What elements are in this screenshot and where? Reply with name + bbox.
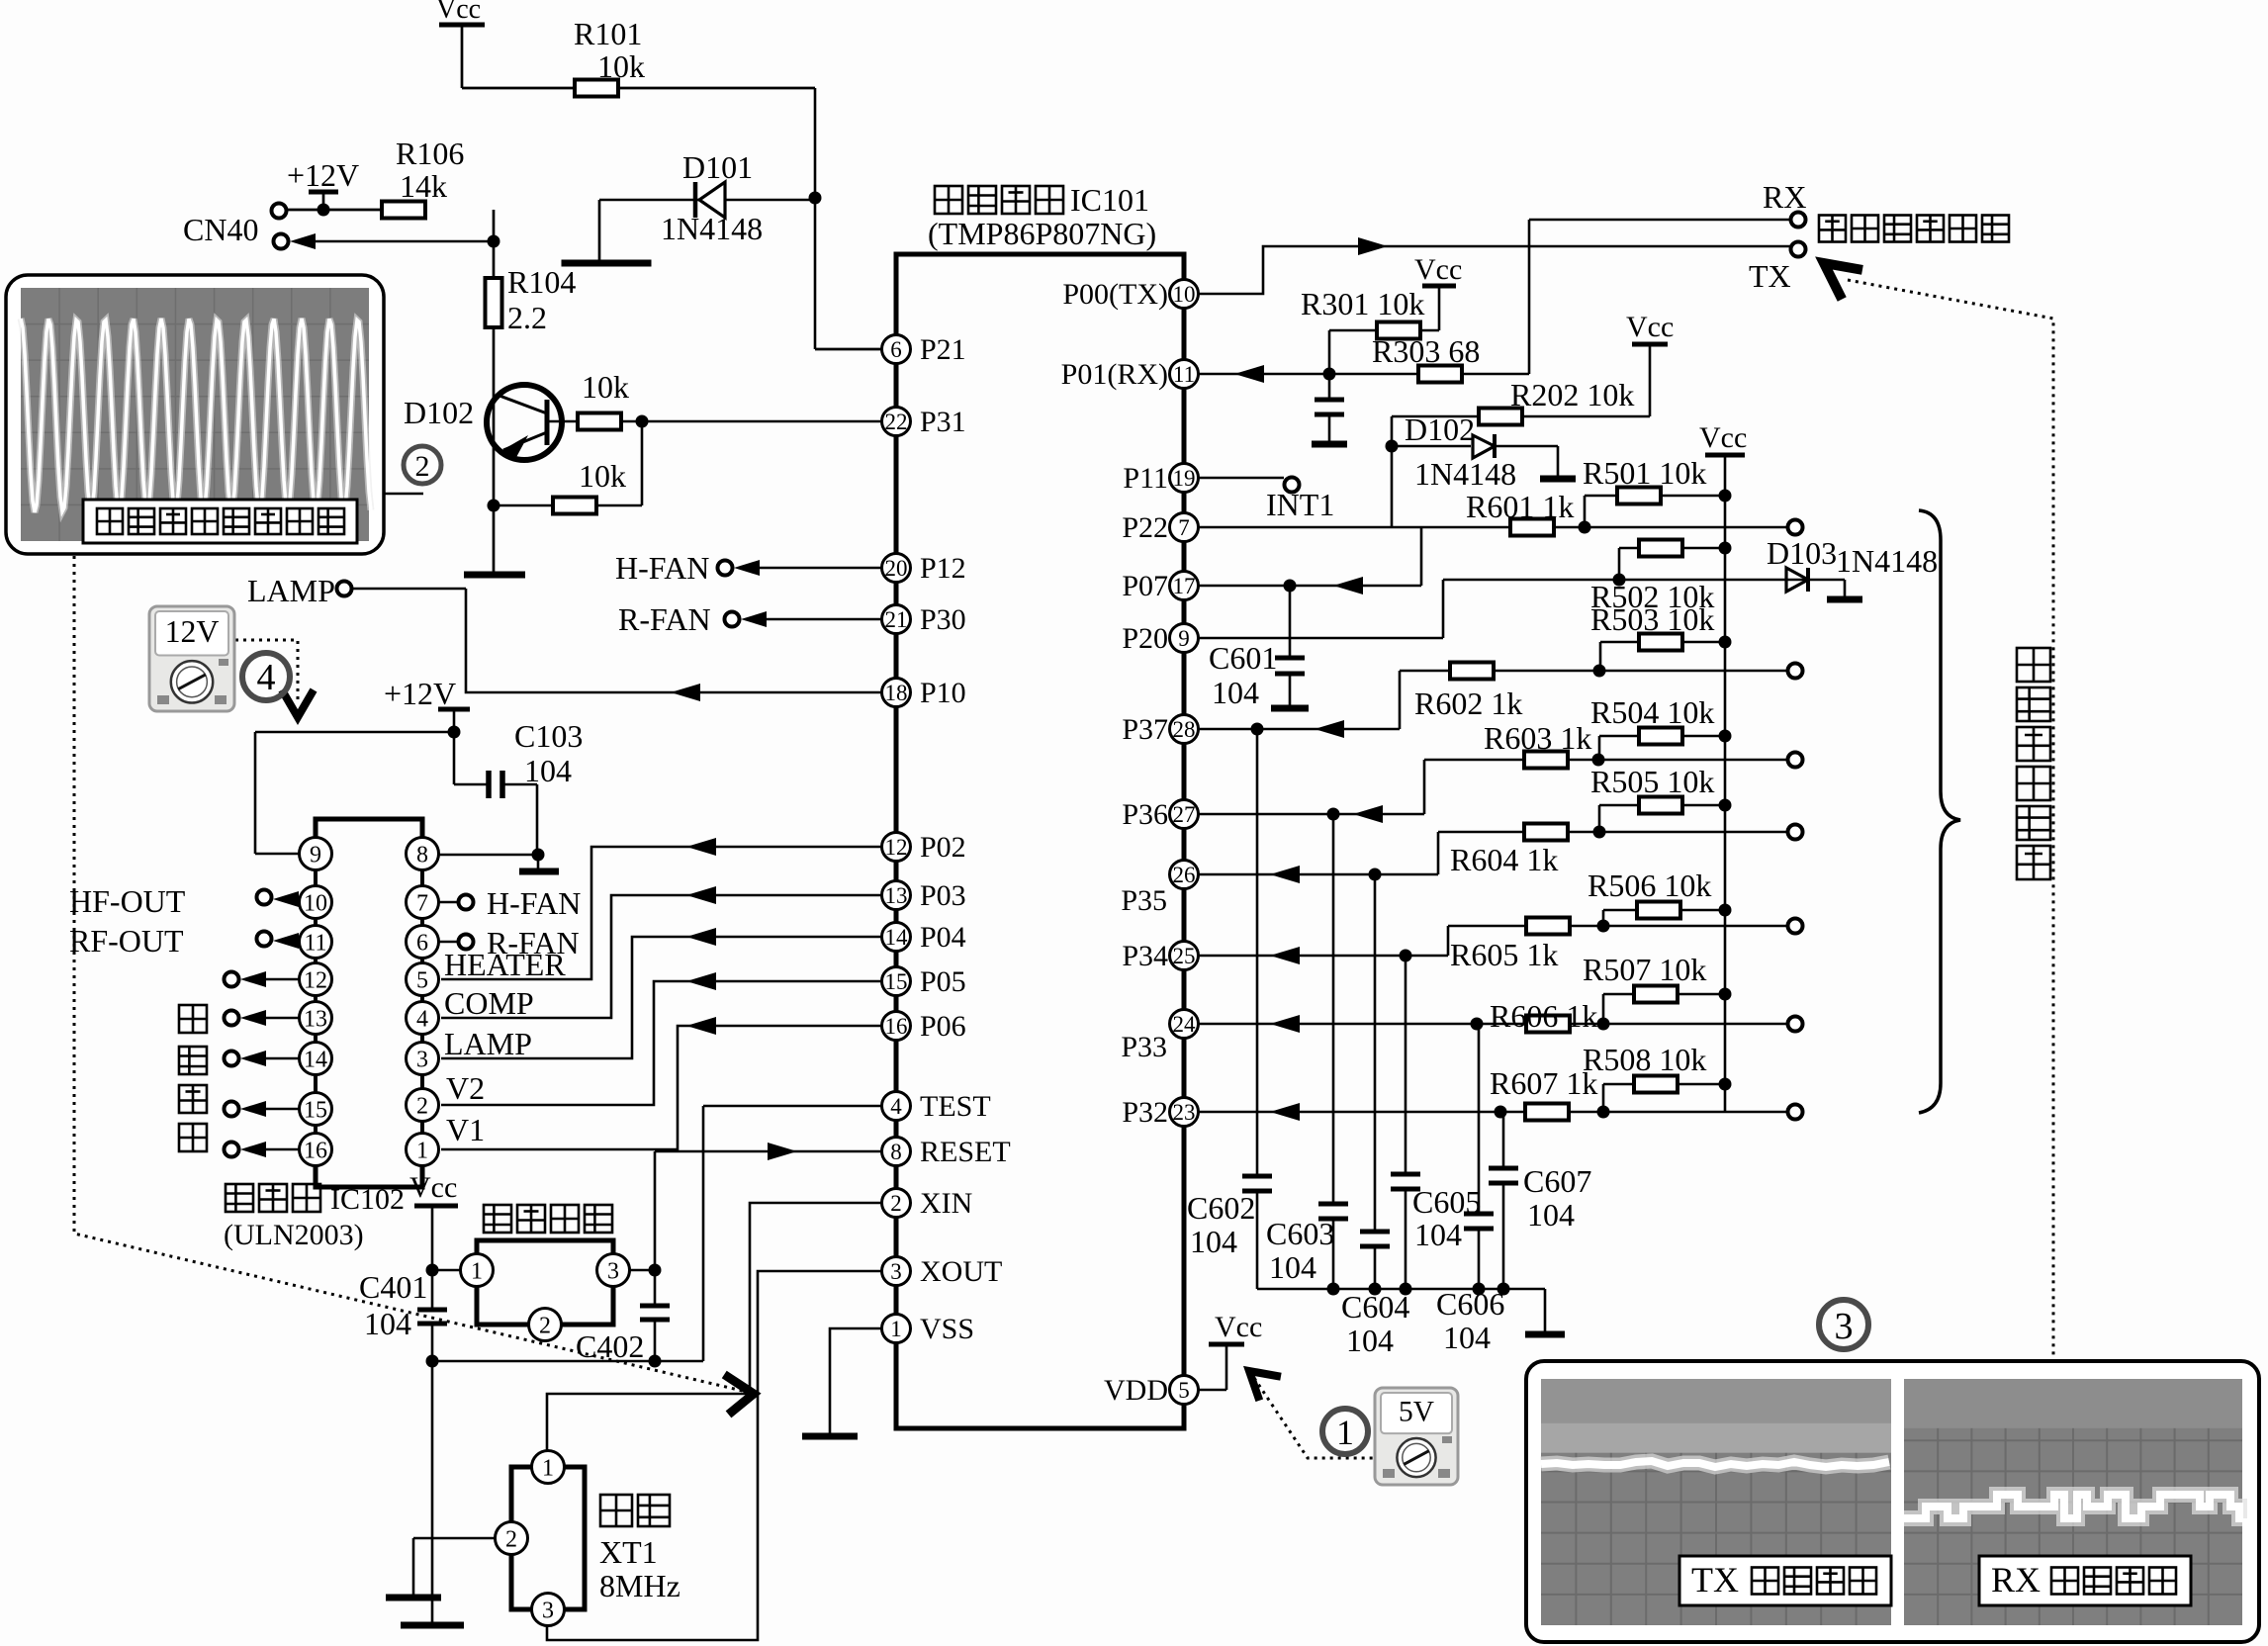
svg-text:1N4148: 1N4148: [1836, 543, 1938, 579]
svg-text:104: 104: [1414, 1217, 1462, 1252]
svg-text:R506 10k: R506 10k: [1588, 868, 1711, 903]
svg-text:P21: P21: [920, 333, 966, 366]
svg-text:13: 13: [304, 1006, 327, 1032]
svg-text:RX: RX: [1763, 179, 1806, 215]
svg-text:13: 13: [885, 883, 908, 908]
svg-text:IC102: IC102: [330, 1183, 405, 1216]
svg-text:19: 19: [1173, 466, 1196, 491]
svg-text:P31: P31: [920, 406, 966, 438]
svg-text:Vcc: Vcc: [1699, 421, 1747, 454]
svg-text:4: 4: [890, 1094, 902, 1119]
svg-text:P33: P33: [1121, 1031, 1167, 1063]
svg-text:LAMP: LAMP: [247, 573, 335, 608]
svg-text:11: 11: [1173, 362, 1195, 387]
svg-text:16: 16: [304, 1138, 327, 1163]
svg-text:Vcc: Vcc: [1626, 311, 1674, 343]
svg-text:LAMP: LAMP: [444, 1026, 532, 1061]
svg-text:20: 20: [885, 556, 908, 581]
svg-text:104: 104: [1346, 1323, 1394, 1358]
svg-text:8: 8: [890, 1140, 902, 1164]
svg-text:R501 10k: R501 10k: [1583, 455, 1706, 491]
svg-text:14k: 14k: [400, 168, 447, 204]
svg-text:2: 2: [539, 1313, 551, 1338]
svg-text:7: 7: [416, 890, 428, 916]
svg-text:23: 23: [1173, 1100, 1196, 1125]
svg-text:P04: P04: [920, 921, 966, 954]
svg-text:6: 6: [890, 337, 902, 362]
svg-text:104: 104: [1443, 1320, 1491, 1355]
svg-text:104: 104: [1212, 675, 1259, 710]
svg-text:14: 14: [304, 1047, 327, 1072]
svg-text:P06: P06: [920, 1010, 966, 1043]
svg-text:6: 6: [416, 930, 428, 956]
svg-text:1N4148: 1N4148: [661, 211, 763, 246]
svg-text:TEST: TEST: [920, 1090, 991, 1123]
svg-text:10: 10: [1173, 282, 1196, 307]
svg-text:3: 3: [1835, 1306, 1854, 1347]
svg-text:C601: C601: [1209, 640, 1277, 676]
svg-text:12: 12: [885, 835, 908, 860]
svg-text:27: 27: [1173, 802, 1196, 827]
svg-text:D101: D101: [682, 149, 753, 185]
svg-text:18: 18: [885, 681, 908, 705]
svg-text:IC101: IC101: [1070, 182, 1149, 218]
svg-text:P32: P32: [1122, 1096, 1168, 1129]
svg-text:TX: TX: [1691, 1560, 1739, 1600]
svg-text:RX: RX: [1991, 1560, 2041, 1600]
svg-text:10k: 10k: [582, 369, 629, 405]
svg-text:1: 1: [471, 1258, 483, 1284]
svg-text:R508 10k: R508 10k: [1583, 1042, 1706, 1077]
svg-text:3: 3: [542, 1598, 554, 1623]
svg-text:R-FAN: R-FAN: [618, 601, 711, 637]
svg-text:C602: C602: [1187, 1190, 1255, 1226]
svg-text:R605 1k: R605 1k: [1450, 937, 1558, 972]
svg-text:XOUT: XOUT: [920, 1255, 1002, 1288]
svg-text:P37: P37: [1122, 713, 1168, 746]
svg-text:+12V: +12V: [287, 157, 359, 193]
svg-text:C607: C607: [1523, 1163, 1591, 1199]
svg-text:4: 4: [257, 657, 276, 698]
svg-text:21: 21: [885, 607, 908, 632]
svg-text:P35: P35: [1121, 884, 1167, 917]
svg-text:R104: R104: [507, 264, 576, 300]
svg-text:P00(TX): P00(TX): [1062, 278, 1168, 311]
svg-text:R604 1k: R604 1k: [1450, 842, 1558, 877]
svg-text:12V: 12V: [165, 614, 220, 649]
svg-text:R606 1k: R606 1k: [1490, 998, 1597, 1034]
svg-text:3: 3: [416, 1047, 428, 1072]
svg-text:3: 3: [890, 1259, 902, 1284]
svg-text:8: 8: [416, 842, 428, 868]
svg-text:P05: P05: [920, 965, 966, 998]
svg-text:VDD: VDD: [1104, 1374, 1168, 1407]
svg-text:(TMP86P807NG): (TMP86P807NG): [928, 216, 1156, 251]
svg-text:D103: D103: [1767, 535, 1837, 571]
svg-text:28: 28: [1173, 717, 1196, 742]
svg-text:12: 12: [304, 967, 327, 993]
svg-text:104: 104: [1527, 1197, 1575, 1233]
svg-text:9: 9: [310, 842, 321, 868]
svg-text:10k: 10k: [597, 48, 645, 84]
svg-text:5V: 5V: [1399, 1396, 1434, 1427]
svg-text:P12: P12: [920, 552, 966, 585]
svg-text:Vcc: Vcc: [409, 1171, 457, 1204]
svg-text:P30: P30: [920, 603, 966, 636]
svg-text:P02: P02: [920, 831, 966, 864]
svg-text:P20: P20: [1122, 622, 1168, 655]
svg-text:9: 9: [1178, 626, 1190, 651]
svg-text:H-FAN: H-FAN: [487, 885, 581, 921]
svg-text:V1: V1: [446, 1112, 485, 1147]
svg-text:5: 5: [416, 967, 428, 993]
svg-text:1: 1: [890, 1317, 902, 1341]
svg-text:R504 10k: R504 10k: [1590, 694, 1714, 730]
svg-text:R603 1k: R603 1k: [1484, 720, 1591, 756]
svg-text:5: 5: [1178, 1378, 1190, 1403]
svg-text:RF-OUT: RF-OUT: [69, 923, 184, 959]
svg-text:H-FAN: H-FAN: [615, 550, 709, 586]
svg-text:26: 26: [1173, 863, 1196, 887]
svg-text:+12V: +12V: [384, 676, 456, 711]
svg-text:10: 10: [304, 890, 327, 916]
svg-text:8MHz: 8MHz: [599, 1568, 680, 1603]
svg-text:P10: P10: [920, 677, 966, 709]
svg-text:HF-OUT: HF-OUT: [69, 883, 186, 919]
svg-text:104: 104: [364, 1306, 411, 1341]
svg-text:17: 17: [1173, 574, 1196, 598]
svg-text:1: 1: [416, 1138, 428, 1163]
svg-text:INT1: INT1: [1266, 487, 1334, 522]
svg-text:Vcc: Vcc: [1215, 1311, 1262, 1343]
svg-text:CN40: CN40: [183, 212, 258, 247]
svg-text:P22: P22: [1122, 511, 1168, 544]
svg-text:C401: C401: [359, 1269, 427, 1305]
svg-text:2.2: 2.2: [507, 300, 547, 335]
svg-text:R301 10k: R301 10k: [1301, 286, 1424, 321]
svg-text:22: 22: [885, 410, 908, 434]
svg-text:P01(RX): P01(RX): [1061, 358, 1168, 391]
svg-text:C606: C606: [1436, 1286, 1504, 1322]
svg-text:RESET: RESET: [920, 1136, 1011, 1168]
svg-text:P34: P34: [1122, 940, 1168, 972]
svg-text:VSS: VSS: [920, 1313, 974, 1345]
svg-text:1N4148: 1N4148: [1414, 456, 1516, 492]
svg-text:D102: D102: [1405, 411, 1475, 447]
svg-text:104: 104: [524, 753, 572, 788]
svg-text:104: 104: [1190, 1224, 1237, 1259]
svg-text:D102: D102: [404, 395, 474, 430]
svg-text:R202 10k: R202 10k: [1510, 377, 1634, 412]
svg-text:XT1: XT1: [599, 1534, 658, 1570]
svg-text:R507 10k: R507 10k: [1583, 952, 1706, 987]
svg-text:2: 2: [890, 1191, 902, 1216]
svg-text:R503 10k: R503 10k: [1590, 601, 1714, 637]
svg-text:P03: P03: [920, 879, 966, 912]
svg-text:2: 2: [505, 1526, 517, 1552]
svg-text:1: 1: [1336, 1413, 1354, 1452]
svg-text:11: 11: [304, 930, 326, 956]
svg-text:4: 4: [416, 1006, 428, 1032]
svg-text:2: 2: [416, 1093, 428, 1119]
svg-text:24: 24: [1173, 1012, 1197, 1037]
svg-text:R106: R106: [396, 136, 464, 171]
svg-text:Vcc: Vcc: [1414, 253, 1462, 286]
svg-text:15: 15: [885, 969, 908, 994]
svg-text:R101: R101: [574, 16, 642, 51]
svg-text:14: 14: [885, 925, 909, 950]
svg-text:2: 2: [415, 450, 430, 483]
svg-text:R601 1k: R601 1k: [1466, 489, 1574, 524]
svg-text:R607 1k: R607 1k: [1490, 1065, 1597, 1101]
svg-text:(ULN2003): (ULN2003): [224, 1219, 364, 1251]
svg-text:R602 1k: R602 1k: [1414, 686, 1522, 721]
svg-text:25: 25: [1173, 944, 1196, 968]
svg-text:V2: V2: [446, 1070, 485, 1106]
svg-text:P11: P11: [1123, 462, 1168, 495]
svg-text:C103: C103: [514, 718, 583, 754]
svg-text:COMP: COMP: [444, 985, 534, 1021]
svg-text:7: 7: [1178, 515, 1190, 540]
svg-text:R505 10k: R505 10k: [1590, 764, 1714, 799]
svg-text:C603: C603: [1266, 1216, 1334, 1251]
svg-text:C402: C402: [576, 1328, 644, 1364]
svg-text:HEATER: HEATER: [444, 947, 566, 982]
svg-text:15: 15: [304, 1097, 327, 1123]
svg-text:TX: TX: [1749, 258, 1791, 294]
svg-text:3: 3: [607, 1258, 619, 1284]
svg-text:P36: P36: [1122, 798, 1168, 831]
svg-text:XIN: XIN: [920, 1187, 972, 1220]
svg-text:Vcc: Vcc: [436, 0, 481, 25]
svg-text:104: 104: [1269, 1249, 1316, 1285]
svg-text:10k: 10k: [579, 458, 626, 494]
svg-text:P07: P07: [1122, 570, 1168, 602]
svg-text:16: 16: [885, 1014, 908, 1039]
svg-text:1: 1: [542, 1455, 554, 1481]
